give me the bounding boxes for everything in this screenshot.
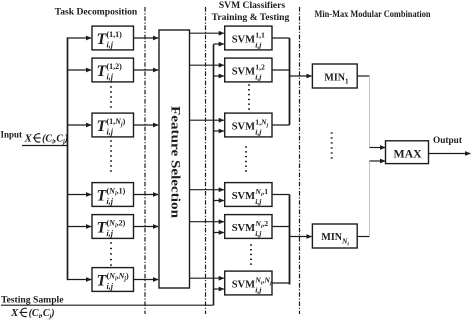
svg-text:X: X <box>10 307 19 319</box>
svg-text:i,j: i,j <box>107 282 114 291</box>
svg-text:i,j: i,j <box>255 73 262 82</box>
svg-text:Task Decomposition: Task Decomposition <box>55 7 138 18</box>
svg-text:SVM Classifiers: SVM Classifiers <box>219 0 286 11</box>
svg-text:SVM: SVM <box>232 223 255 234</box>
svg-text:Input: Input <box>1 130 23 140</box>
svg-text:SVM: SVM <box>232 35 255 46</box>
svg-text:i,j: i,j <box>255 128 262 137</box>
svg-text:Min-Max Modular Combination: Min-Max Modular Combination <box>315 10 432 20</box>
svg-text:i,j: i,j <box>107 73 114 82</box>
svg-text:(Ci,Cj): (Ci,Cj) <box>42 134 68 146</box>
svg-text:MAX: MAX <box>394 146 423 160</box>
svg-text:Feature Selection: Feature Selection <box>169 106 184 219</box>
svg-text:(Ci,Cj): (Ci,Cj) <box>29 308 55 320</box>
svg-text:SVM: SVM <box>232 67 255 78</box>
svg-text:Output: Output <box>433 136 463 146</box>
svg-text:i,j: i,j <box>255 229 262 238</box>
svg-text:i,j: i,j <box>255 197 262 206</box>
svg-text:SVM: SVM <box>232 191 255 202</box>
svg-text:X: X <box>24 133 33 145</box>
svg-text:Training & Testing: Training & Testing <box>212 12 290 23</box>
svg-text:(1,1): (1,1) <box>107 30 123 39</box>
svg-text:SVM: SVM <box>232 122 255 133</box>
svg-text:i,j: i,j <box>107 197 114 206</box>
svg-text:1,2: 1,2 <box>255 63 265 72</box>
svg-text:(1,2): (1,2) <box>107 62 123 71</box>
svg-text:1,1: 1,1 <box>255 31 265 40</box>
svg-text:Testing Sample: Testing Sample <box>1 296 64 306</box>
svg-text:SVM: SVM <box>232 280 255 291</box>
svg-text:i,j: i,j <box>107 229 114 238</box>
svg-text:i,j: i,j <box>107 41 114 50</box>
svg-text:i,j: i,j <box>255 41 262 50</box>
svg-text:i,j: i,j <box>107 128 114 137</box>
svg-text:i,j: i,j <box>255 286 262 295</box>
